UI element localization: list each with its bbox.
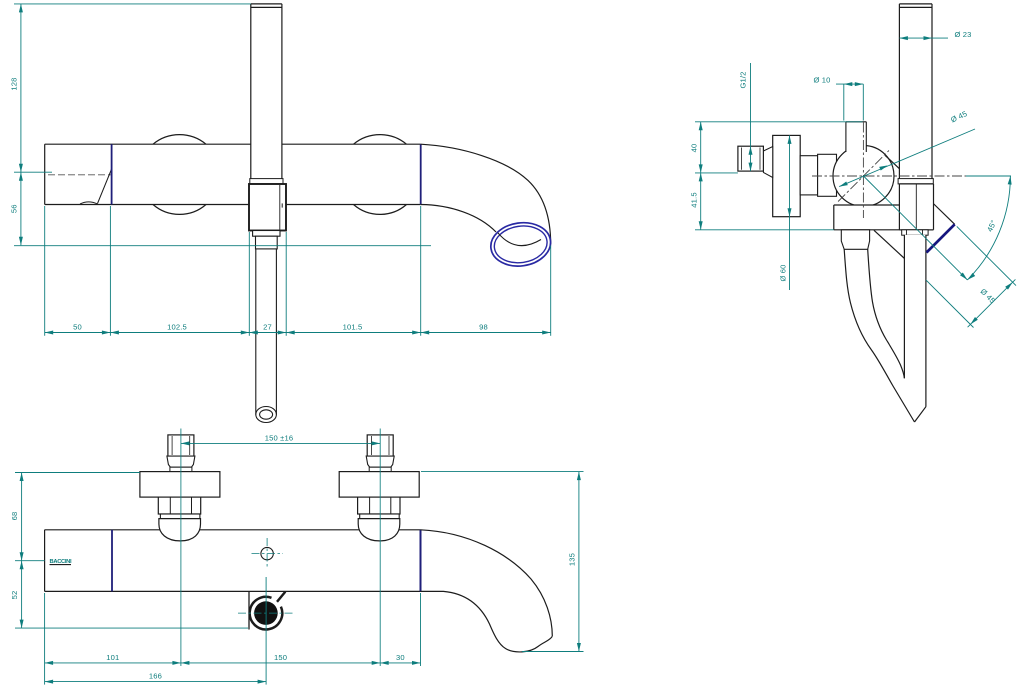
outlet crosshair [238, 612, 294, 614]
svg-text:56: 56 [9, 204, 18, 213]
mixer ball [833, 146, 894, 207]
cap diagonal detail [98, 169, 112, 204]
svg-text:41.5: 41.5 [690, 192, 699, 207]
center line horizontal [812, 175, 966, 177]
body block [834, 205, 934, 230]
cap bottom arc detail [80, 202, 98, 204]
svg-text:166: 166 [149, 672, 162, 681]
dimension o10 [836, 84, 863, 120]
bracket lower step [253, 231, 280, 237]
inlet connector right [339, 435, 419, 541]
dimension o45 spout [926, 226, 1016, 327]
spout lower edge [874, 230, 905, 258]
dimension 128 / 56 vertical (front left) [14, 4, 431, 246]
dimension o45 ball callout [839, 129, 975, 187]
pipe collar [898, 179, 933, 184]
hose inner curve [868, 249, 905, 378]
hand shower hose (front) [256, 249, 277, 415]
dimension row 50 102.5 27 101.5 98 [45, 206, 551, 336]
dimension 68 / 52 vertical (bottom left) [15, 473, 248, 629]
shower column [251, 4, 282, 184]
column collar [250, 179, 283, 184]
dimension 45deg arc [967, 176, 1010, 280]
spout end cut (navy) [927, 224, 955, 252]
body bar [45, 144, 421, 204]
outlet hook [277, 592, 285, 602]
bottom nut row [902, 230, 928, 235]
svg-text:27: 27 [263, 322, 272, 331]
connector centerlines [180, 429, 182, 667]
svg-text:98: 98 [479, 322, 488, 331]
spout outer curve [421, 144, 551, 244]
dimension 166 [45, 681, 267, 683]
spout inner curve [421, 205, 496, 233]
dimension 45deg line [864, 176, 968, 280]
FRONT VIEW [9, 4, 553, 423]
hose outer curve [844, 249, 914, 422]
junction line right (navy) [420, 530, 422, 592]
junction line left (navy) [111, 144, 113, 204]
dimension 135 vertical (bottom right) [421, 472, 584, 652]
hose connector [841, 230, 869, 250]
hand shower pipe [899, 4, 932, 179]
svg-text:30: 30 [396, 653, 405, 662]
svg-text:52: 52 [10, 591, 19, 600]
outlet disc [254, 601, 278, 625]
spout plan inner curve and tip [421, 591, 553, 652]
svg-text:Ø 23: Ø 23 [954, 30, 971, 39]
dimension 150 +-16 [181, 442, 380, 444]
spout mouth ellipse (blue) [488, 219, 553, 270]
svg-text:102.5: 102.5 [167, 322, 187, 331]
center line diagonal [838, 151, 889, 202]
body bar (plan) [45, 530, 421, 592]
step cylinder 2 [818, 154, 837, 196]
step cylinder 1 [800, 156, 817, 195]
dimension o60 [789, 135, 791, 290]
SIDE VIEW [690, 4, 1017, 422]
shower bracket [249, 184, 286, 231]
dimension 40 / 41.5 vertical [695, 122, 863, 230]
spout bore arc [498, 233, 541, 246]
svg-text:Ø 10: Ø 10 [813, 76, 830, 85]
dimension row 101 150 30 [45, 577, 421, 685]
dimension o23 [899, 37, 948, 39]
o10 stem pipe [846, 122, 866, 152]
svg-text:101.5: 101.5 [343, 322, 363, 331]
svg-text:Ø 60: Ø 60 [778, 264, 787, 281]
junction line right (navy) [420, 144, 422, 204]
screw hole center [261, 547, 273, 559]
cap center line [48, 174, 111, 176]
hand shower wand tube [904, 235, 926, 422]
svg-text:150: 150 [274, 653, 287, 662]
svg-text:135: 135 [568, 553, 577, 566]
wall flange [773, 135, 801, 216]
spout plan outer curve [421, 530, 553, 637]
outlet bracket edge [248, 591, 250, 629]
inlet taper [763, 147, 772, 178]
inlet thread G1/2 [738, 146, 764, 171]
svg-text:68: 68 [10, 512, 19, 521]
hose end ellipses [256, 407, 277, 423]
outlet C-ring [250, 597, 283, 630]
BOTTOM VIEW [10, 429, 583, 685]
spout holder tower [899, 184, 933, 230]
svg-text:150 ±16: 150 ±16 [265, 434, 293, 443]
left end cap [44, 144, 46, 204]
dimension 45deg horizontal ref [966, 175, 1011, 177]
svg-text:50: 50 [73, 322, 82, 331]
junction line cap (navy) [111, 530, 113, 592]
svg-text:128: 128 [9, 77, 18, 90]
hose nut [256, 236, 278, 249]
spout upper edge [885, 156, 954, 225]
inlet connector left [140, 435, 220, 541]
center line vertical [862, 123, 864, 219]
svg-text:101: 101 [106, 653, 119, 662]
handle right (ellipse arcs behind body) [354, 135, 407, 145]
dimension G1/2 [750, 63, 752, 171]
handle left (ellipse arcs behind body) [153, 135, 206, 145]
svg-text:G1/2: G1/2 [738, 71, 747, 88]
svg-text:40: 40 [690, 144, 699, 153]
